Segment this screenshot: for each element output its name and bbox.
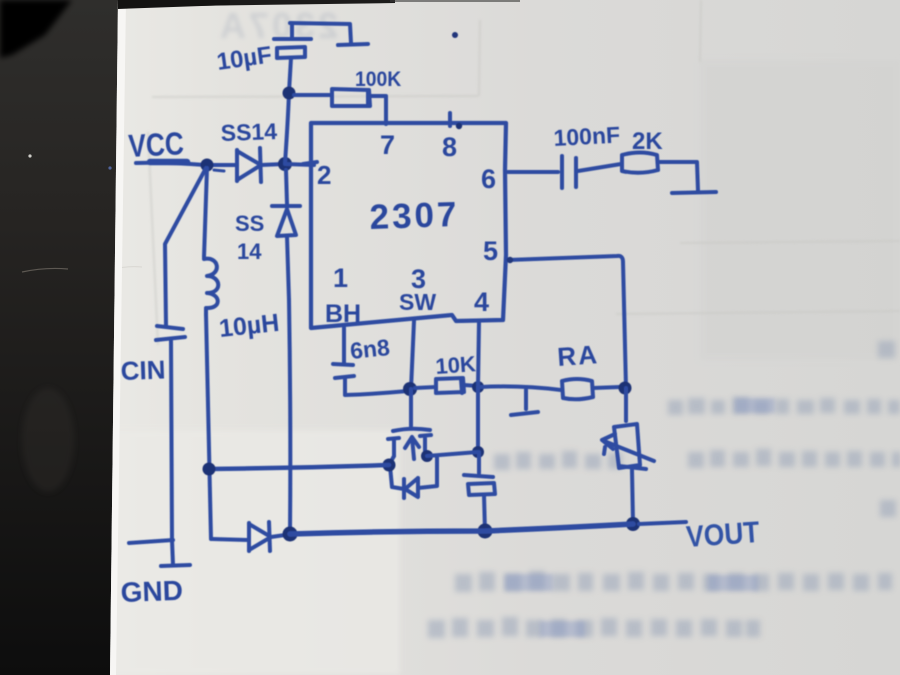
wire GND stub left: [129, 540, 173, 543]
wire bottom left to diode: [212, 539, 249, 540]
label pin 8: [442, 132, 457, 162]
ghost mirrored text top: [217, 5, 338, 46]
svg-text:100nF: 100nF: [553, 122, 621, 151]
svg-text:BH: BH: [325, 300, 361, 328]
wire VOUT: [639, 522, 686, 524]
label 2307: [369, 195, 460, 237]
svg-text:2307: 2307: [369, 195, 460, 237]
svg-text:10K: 10K: [435, 351, 477, 379]
svg-text:1: 1: [333, 263, 348, 293]
label SW: [399, 289, 436, 315]
scratch mark on black: [22, 268, 68, 272]
label 10K: [435, 351, 477, 379]
svg-text:RA: RA: [556, 339, 600, 372]
wire N6 down to zener: [624, 388, 628, 421]
label pin 2: [317, 160, 331, 190]
capacitor C2 100nF: [562, 156, 621, 188]
label 2K: [632, 128, 663, 155]
wire mosfet left to inductor line: [209, 465, 389, 469]
inductor L1 10uH: [204, 168, 218, 539]
wire N5 to RA: [481, 386, 561, 390]
node N7 junction VOUT: [626, 517, 640, 531]
wire pin5 out: [508, 256, 626, 388]
label 100nF: [553, 122, 621, 151]
label VOUT: [685, 514, 761, 553]
svg-text:SW: SW: [399, 289, 436, 315]
wire mosfet right to N8: [427, 452, 478, 456]
node N3 junction 100K: [283, 87, 296, 100]
IC U1 2307 box: [311, 123, 506, 328]
label VCC: [128, 127, 185, 165]
capacitor C1 10uF: [274, 24, 311, 58]
wire top bracket: [290, 23, 351, 43]
ground stub mid: [511, 390, 538, 415]
svg-text:2K: 2K: [632, 128, 663, 155]
pin 8 tick: [448, 113, 452, 126]
diode D2 SS14 (vertical): [272, 170, 300, 300]
top dark strip: [118, 0, 395, 7]
label 10uF: [215, 42, 273, 76]
wire vertical x288 down to bottom: [289, 300, 290, 534]
svg-text:6: 6: [481, 164, 496, 194]
svg-text:5: 5: [483, 236, 498, 266]
ghost brighter patches: [505, 398, 775, 637]
pin 2 tick: [303, 162, 317, 164]
capacitor C3 6n8 from pin1: [333, 328, 408, 395]
ghost chinese text blobs lower right: [428, 341, 900, 638]
ground stub 2K end: [672, 192, 716, 193]
svg-text:6n8: 6n8: [349, 334, 391, 364]
wire pin6 out: [508, 170, 558, 174]
node N12 junction mosfet wire: [203, 463, 216, 476]
wire pin4 down: [478, 321, 479, 452]
diode D4 bottom: [249, 522, 285, 551]
white speck on black: [28, 154, 31, 157]
capacitor C5 CIN: [156, 326, 185, 540]
capacitor C4 output: [464, 452, 495, 532]
node N13 bottom diode: [283, 527, 298, 542]
wire vertical N2 up to cap: [285, 58, 291, 163]
node N10 mosfet left: [383, 459, 396, 472]
svg-text:SS14: SS14: [220, 118, 277, 146]
label pin 5: [483, 236, 498, 266]
node N8 junction mosfet wire: [472, 446, 484, 458]
label 14: [237, 239, 262, 264]
mosfet Q1: [388, 389, 437, 498]
svg-text:100K: 100K: [355, 68, 402, 91]
wire VCC slant to CIN: [165, 168, 206, 325]
label 10uH: [218, 309, 281, 343]
label pin 1: [333, 263, 348, 293]
ghost table lines (show-through): [148, 0, 900, 345]
label GND: [120, 575, 183, 608]
node N2 junction diode/pin2: [278, 157, 292, 171]
resistor R2 2K: [622, 153, 698, 192]
svg-text:GND: GND: [120, 575, 183, 608]
label pin 4: [474, 287, 489, 317]
node N5 junction pin4 wire: [472, 381, 484, 393]
wire bottom rail: [290, 524, 633, 534]
label CIN: [120, 354, 166, 386]
label RA: [556, 339, 600, 372]
svg-text:4: 4: [474, 287, 489, 317]
node N1 junction VCC: [201, 159, 214, 172]
svg-text:2: 2: [317, 160, 331, 190]
svg-text:7: 7: [380, 130, 395, 160]
label SS: [235, 211, 264, 236]
label 100K: [355, 68, 402, 91]
stray ink dot: [452, 32, 458, 38]
svg-text:SS: SS: [235, 211, 264, 236]
wire N3 to 100K: [294, 93, 332, 97]
wire N2 to pin2: [285, 164, 314, 165]
svg-text:VOUT: VOUT: [685, 514, 761, 553]
label pin 3: [411, 264, 426, 294]
node N9 junction bottom: [478, 524, 493, 539]
pin 8 dot: [456, 123, 462, 129]
resistor R1 100K: [332, 89, 386, 124]
node N6 junction RA/pin5: [619, 382, 632, 395]
paper edge highlight: [110, 0, 126, 675]
zener Z1 adjustable: [602, 424, 654, 523]
wire VCC input: [136, 163, 205, 165]
label 6n8: [349, 334, 391, 364]
svg-text:CIN: CIN: [120, 354, 166, 386]
wire pin3 SW down: [411, 321, 414, 389]
svg-text:8: 8: [442, 132, 457, 162]
svg-text:14: 14: [237, 239, 262, 264]
top bracket end bar: [338, 44, 368, 45]
label pin 7: [380, 130, 395, 160]
node N4 SW junction: [403, 382, 417, 396]
resistor R4 RA: [562, 379, 620, 399]
label BH: [325, 300, 361, 328]
label pin 6: [481, 164, 496, 194]
photo black margin left: [0, 0, 118, 675]
node N11 mosfet right: [421, 450, 433, 462]
resistor R3 10K: [415, 378, 478, 393]
diode D1 SS14 (horizontal): [207, 148, 284, 182]
ground GND symbol: [161, 540, 190, 566]
label SS14: [220, 118, 277, 146]
